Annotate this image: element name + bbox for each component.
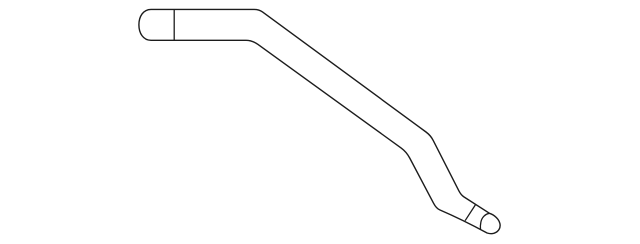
left end seam [173,10,175,41]
right end seam [465,204,476,220]
tip end-face arc [480,213,489,229]
part outline (curved tubular trim/pipe) [139,9,500,233]
